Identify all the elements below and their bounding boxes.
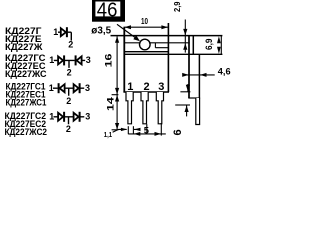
svg-text:КД227ЖС: КД227ЖС [5, 68, 47, 79]
svg-text:1: 1 [49, 83, 54, 93]
svg-text:16: 16 [103, 53, 113, 67]
svg-text:10: 10 [141, 17, 148, 26]
svg-text:1: 1 [127, 81, 133, 93]
svg-text:КД227ЖС2: КД227ЖС2 [5, 126, 48, 137]
svg-text:3: 3 [85, 83, 90, 93]
svg-text:2: 2 [66, 96, 71, 106]
svg-text:6: 6 [172, 129, 184, 135]
svg-text:1: 1 [49, 111, 54, 121]
svg-text:1: 1 [53, 27, 58, 37]
svg-text:3: 3 [86, 55, 91, 65]
svg-text:2: 2 [66, 124, 71, 134]
svg-text:2: 2 [67, 68, 72, 78]
svg-text:46: 46 [97, 0, 118, 21]
svg-text:2: 2 [144, 81, 150, 93]
svg-text:3: 3 [158, 81, 164, 93]
svg-text:КД227Ж: КД227Ж [5, 41, 43, 52]
svg-text:4,6: 4,6 [218, 67, 231, 78]
svg-text:2: 2 [68, 39, 73, 49]
svg-text:1: 1 [49, 55, 54, 65]
svg-text:ø3,5: ø3,5 [91, 25, 111, 36]
svg-text:14: 14 [106, 97, 116, 111]
svg-text:6,9: 6,9 [204, 39, 215, 51]
svg-text:2,9: 2,9 [173, 1, 182, 12]
svg-text:3: 3 [85, 111, 90, 121]
svg-text:КД227ЖС1: КД227ЖС1 [6, 97, 47, 108]
svg-text:1,1: 1,1 [104, 130, 112, 139]
